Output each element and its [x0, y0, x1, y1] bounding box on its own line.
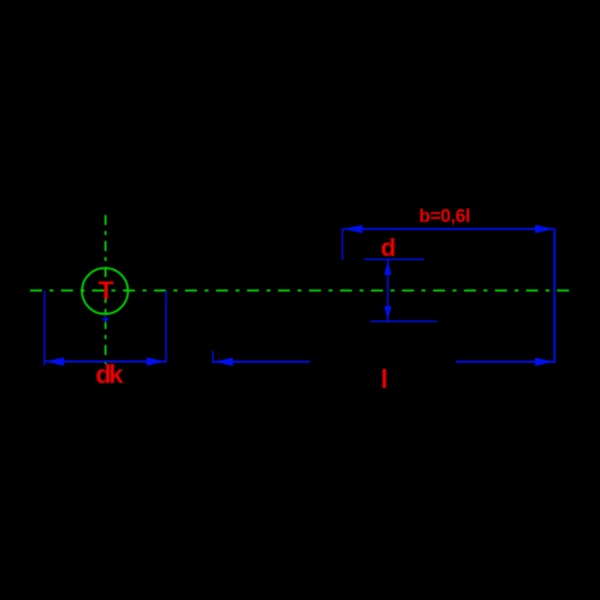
l extension line left	[212, 351, 214, 364]
head circle	[82, 268, 128, 314]
b extension line right	[554, 229, 556, 364]
b arrow left	[344, 225, 363, 233]
d top line	[364, 258, 424, 260]
b arrow right	[535, 225, 554, 233]
dk arrow right	[147, 357, 166, 365]
svg-text:d: d	[381, 234, 396, 262]
b extension line left	[342, 229, 344, 261]
dk dimension line	[45, 361, 167, 363]
centerline horizontal	[30, 290, 570, 292]
l arrow left	[214, 358, 233, 366]
svg-text:dk: dk	[96, 359, 124, 389]
d arrow up	[384, 260, 391, 275]
dk extension line right	[165, 291, 167, 363]
center cross marker	[102, 316, 108, 323]
l arrow right	[535, 358, 554, 366]
svg-text:l: l	[381, 364, 388, 394]
dk arrow left	[45, 357, 64, 365]
svg-text:b=0,6l: b=0,6l	[419, 205, 470, 226]
centerline vertical	[105, 215, 107, 364]
b dimension line	[343, 228, 555, 230]
svg-text:T: T	[98, 277, 113, 305]
l dimension line right segment	[456, 361, 555, 363]
d bottom line	[371, 320, 437, 322]
d arrow down	[384, 306, 391, 321]
dk extension line left	[44, 291, 46, 366]
d dimension stem	[387, 260, 389, 321]
l dimension line left segment	[213, 361, 310, 363]
